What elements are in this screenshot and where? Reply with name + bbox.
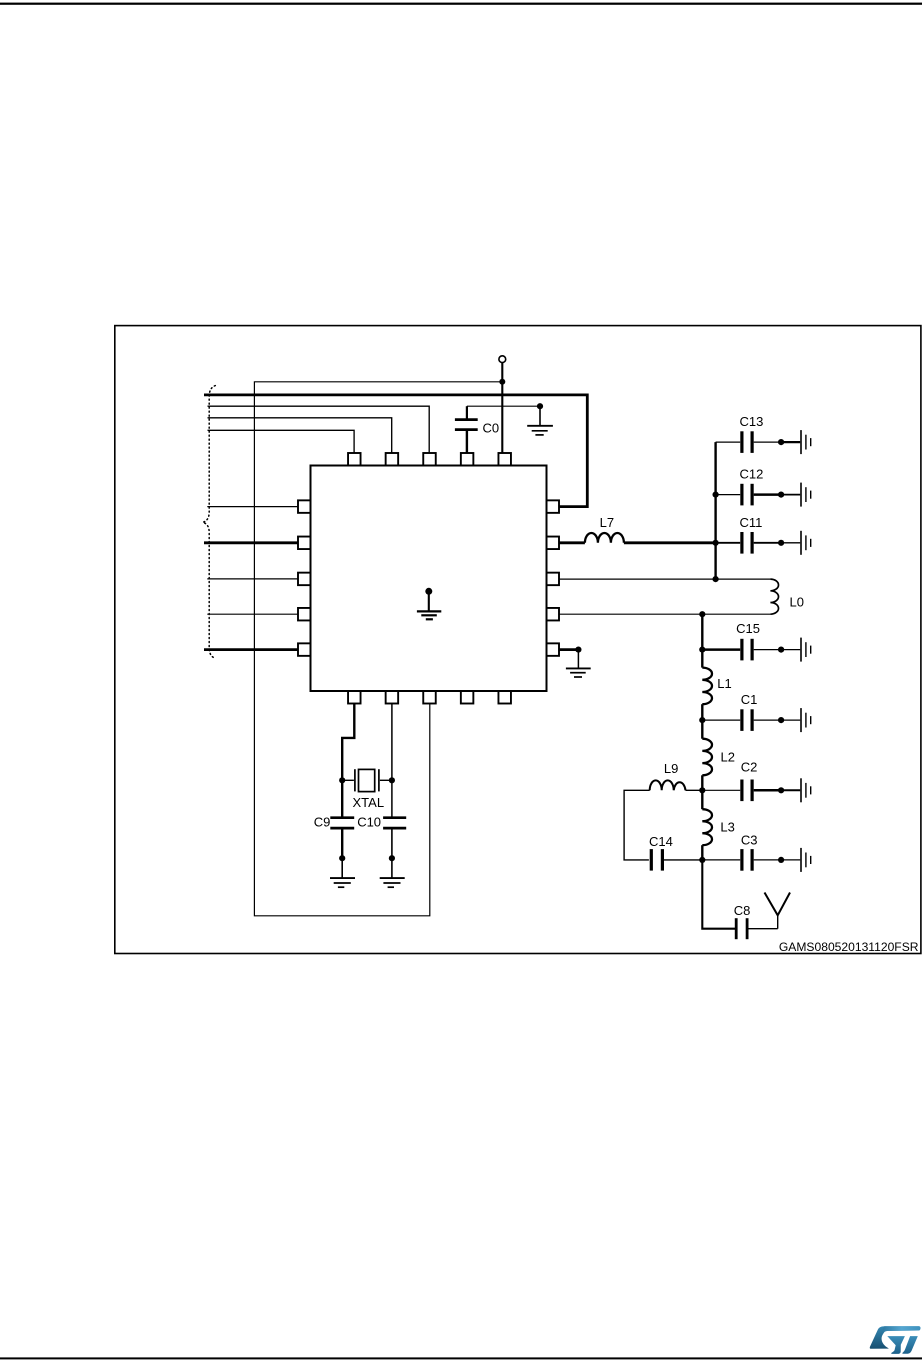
ground C15 — [801, 638, 811, 662]
pin L2 — [298, 537, 311, 550]
node C11 gnd — [778, 540, 784, 546]
node XTAL left — [339, 777, 345, 783]
pin R5 — [547, 643, 560, 656]
node C12 — [713, 492, 719, 498]
node C10 gnd — [389, 855, 395, 861]
pin B2 — [386, 691, 399, 704]
svg-text:C11: C11 — [740, 515, 763, 530]
svg-text:C10: C10 — [357, 815, 381, 830]
svg-text:C15: C15 — [736, 621, 760, 636]
pin T4 — [461, 453, 474, 466]
ST logo — [870, 1326, 921, 1354]
ground C9 — [330, 858, 355, 887]
pin L3 — [298, 573, 311, 586]
wire chain L0 to C15 — [701, 614, 703, 667]
ground inside IC — [417, 588, 441, 620]
pin L4 — [298, 608, 311, 621]
antenna — [765, 893, 791, 929]
wire L3 to C3 node — [701, 845, 703, 860]
ground C12 — [801, 483, 811, 507]
wire pin B1 to XTAL — [342, 704, 354, 817]
pin T3 — [423, 453, 436, 466]
pin L5 — [298, 643, 311, 656]
svg-text:C8: C8 — [734, 903, 751, 918]
ground near pin R5 — [566, 650, 591, 677]
wire C1 to ground — [781, 719, 800, 721]
ground C2 — [801, 778, 811, 802]
svg-text:L9: L9 — [664, 761, 678, 776]
wire bus line 2 — [208, 406, 430, 453]
wire L0 bottom to pin R4 — [559, 613, 770, 615]
capacitor C10 — [383, 818, 406, 859]
node C15 gnd — [778, 647, 784, 653]
wire L7 to C11 node — [624, 541, 716, 544]
svg-text:L1: L1 — [717, 676, 731, 691]
ground near C0 — [527, 406, 553, 435]
capacitor C15 — [702, 639, 781, 661]
capacitor C9 — [330, 818, 354, 859]
figure frame — [115, 326, 921, 954]
inductor L1 — [702, 668, 712, 705]
ground C3 — [801, 848, 811, 872]
pin T5 — [498, 453, 511, 466]
wire L9 left loop — [624, 790, 650, 860]
pin T2 — [386, 453, 399, 466]
capacitor C3 — [702, 849, 781, 871]
wire pin L5 (thick) — [204, 648, 298, 651]
wire C2 to ground — [781, 789, 800, 791]
inductor L2 — [702, 739, 712, 776]
inductor L7 — [585, 533, 624, 543]
wire VDD bus (thick top) — [204, 395, 587, 507]
pin B4 — [461, 691, 474, 704]
wire C13 to ground — [781, 441, 800, 443]
wire pin B2 to XTAL — [391, 704, 393, 817]
capacitor C2 — [702, 780, 781, 802]
wire pin L3 — [207, 578, 298, 580]
ground C1 — [801, 708, 811, 732]
terminal circle — [499, 356, 506, 363]
wire C11 to ground — [781, 542, 800, 544]
capacitor C12 — [716, 484, 782, 506]
svg-text:L2: L2 — [721, 750, 735, 765]
wire terminal to pin T5 — [501, 363, 503, 453]
wire pin L4 — [207, 613, 298, 615]
wire C15 to ground — [781, 649, 800, 651]
wire L1 to C1 — [701, 704, 703, 739]
pin L1 — [298, 500, 311, 512]
wire pin R5 to ground — [559, 648, 578, 651]
node R3 line — [713, 576, 719, 582]
svg-text:C14: C14 — [649, 834, 673, 849]
pin R4 — [547, 608, 560, 621]
ground C13 — [801, 430, 811, 454]
wire C0 to ground — [467, 405, 540, 407]
node R5 gnd — [575, 647, 581, 653]
pin B1 — [348, 691, 361, 704]
node C2 gnd — [778, 787, 784, 793]
ground C11 — [801, 531, 811, 555]
pin R1 — [547, 500, 560, 512]
wire C12 to ground — [781, 494, 800, 496]
capacitor C8 — [736, 918, 778, 939]
svg-text:C9: C9 — [314, 815, 331, 830]
wire pin R2 to L7 — [559, 541, 585, 544]
node C3/C14 — [699, 857, 705, 863]
capacitor C0 — [455, 406, 478, 453]
pin B5 — [498, 691, 511, 704]
wire chain to C8 — [702, 860, 735, 929]
ground C10 — [380, 858, 405, 887]
svg-text:C2: C2 — [741, 760, 758, 775]
svg-text:XTAL: XTAL — [353, 795, 385, 810]
pin T1 — [348, 453, 361, 466]
svg-text:GAMS080520131120FSR: GAMS080520131120FSR — [779, 940, 919, 954]
header rule — [0, 3, 922, 5]
wire vertical C13/C12/C11 bus — [714, 442, 716, 579]
inductor L0 — [770, 579, 778, 614]
node junction — [499, 379, 505, 385]
node C15 — [699, 647, 705, 653]
svg-text:C3: C3 — [741, 833, 758, 848]
capacitor C11 — [716, 532, 782, 554]
IC U1 body — [311, 466, 547, 692]
crystal XTAL — [342, 769, 392, 791]
wire pin L1 — [207, 506, 298, 508]
footer rule — [0, 1357, 922, 1359]
svg-text:C0: C0 — [483, 421, 500, 436]
wire L9 node — [686, 789, 703, 791]
inductor L9 — [650, 780, 686, 790]
wire pin L2 (thick) — [204, 541, 298, 544]
node XTAL right — [389, 777, 395, 783]
pin R3 — [547, 573, 560, 586]
svg-text:C12: C12 — [740, 467, 764, 482]
node C12 gnd — [778, 492, 784, 498]
node chain top — [699, 611, 705, 617]
node C0 gnd — [537, 403, 543, 409]
svg-text:L0: L0 — [790, 595, 804, 610]
svg-text:L7: L7 — [600, 515, 614, 530]
node L9/C2 — [699, 787, 705, 793]
pin B3 — [423, 691, 436, 704]
wire feedback loop — [254, 382, 502, 916]
node C11 — [713, 540, 719, 546]
svg-text:C13: C13 — [740, 414, 764, 429]
brace (dotted) — [203, 386, 216, 659]
capacitor C14 — [651, 849, 702, 871]
wire bus line 3 — [208, 418, 392, 453]
node C3 gnd — [778, 857, 784, 863]
node C9 gnd — [339, 855, 345, 861]
svg-text:L3: L3 — [720, 820, 734, 835]
inductor L3 — [702, 809, 712, 845]
wire pin R3 to L0 top — [559, 578, 770, 580]
node C13 gnd — [778, 439, 784, 445]
pin R2 — [547, 537, 560, 550]
wire C3 to ground — [781, 859, 800, 861]
capacitor C13 — [716, 431, 782, 453]
wire L2 to L9 node — [701, 775, 703, 809]
node C1 — [699, 717, 705, 723]
node C1 gnd — [778, 717, 784, 723]
svg-text:C1: C1 — [741, 692, 758, 707]
capacitor C1 — [702, 709, 781, 731]
wire bus line 4 — [208, 430, 355, 453]
